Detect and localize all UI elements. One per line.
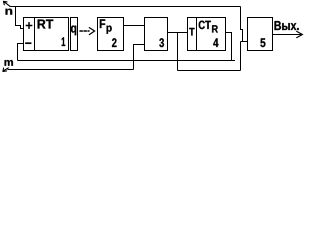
- q output box of block 1: [71, 18, 78, 51]
- wire block2 to block3: [124, 25, 145, 27]
- label p subscript: [107, 26, 112, 34]
- output arrowhead: [297, 31, 303, 37]
- label 2: [112, 38, 117, 47]
- wire minus input of block 1: [18, 44, 24, 61]
- label F: [100, 19, 105, 28]
- wire W3 drop from 3-4 wire to bottom y70 line: [177, 33, 179, 71]
- label 4: [213, 38, 218, 47]
- block 1 divider: [34, 18, 36, 51]
- wire m line y69: [8, 69, 134, 71]
- input arrow n: [3, 1, 9, 6]
- label Vyh output: [275, 21, 299, 30]
- label 3: [159, 38, 164, 47]
- block 2 Fp box: [98, 18, 124, 51]
- output arrow shaft: [273, 34, 302, 36]
- wire block3 to block4 T input: [168, 32, 188, 34]
- label n: [6, 9, 13, 15]
- wire W1 vertical n drop with jog: [241, 7, 243, 42]
- label CT: [199, 21, 211, 30]
- block 3 box: [145, 18, 168, 51]
- input arrow m: [3, 68, 9, 72]
- block 1 register RT box: [24, 18, 69, 51]
- block 4 counter box: [188, 18, 226, 51]
- wire W1 entry into block 5: [241, 41, 248, 43]
- wire n branch into plus input of block 1: [16, 7, 24, 29]
- label q: [71, 26, 76, 36]
- label R subscript: [212, 25, 218, 32]
- wire bottom line y70 from W3 to n drop: [178, 70, 241, 72]
- plus sign: [26, 23, 31, 28]
- wire m riser into block 3 left input: [134, 45, 145, 70]
- label m: [5, 60, 13, 66]
- label 1: [62, 37, 66, 46]
- wire top line from n input to block5 drop: [10, 6, 241, 8]
- label 5: [260, 38, 265, 47]
- wire W2 block4 output down to y60 line: [226, 33, 232, 61]
- wire bottom line y60 from minus input to block4 output drop: [18, 60, 236, 62]
- block 4 divider: [196, 18, 198, 51]
- minus sign: [26, 42, 31, 44]
- label RT: [38, 20, 54, 29]
- wire W1 lower vertical to y70 line: [240, 42, 242, 71]
- block 5 box: [248, 18, 273, 51]
- dashed data-transfer arrow q to block 2: [80, 30, 89, 32]
- pin label T: [189, 28, 194, 36]
